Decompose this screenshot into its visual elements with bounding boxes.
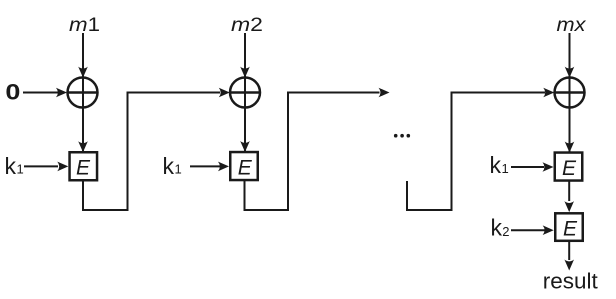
svg-text:2: 2 [502, 224, 509, 239]
svg-text:k: k [163, 153, 175, 179]
svg-text:k: k [491, 215, 503, 241]
svg-text:E: E [76, 157, 91, 180]
svg-text:0: 0 [5, 80, 20, 105]
svg-text:1: 1 [175, 162, 182, 177]
svg-text:result: result [543, 269, 598, 294]
svg-text:k: k [490, 152, 502, 178]
svg-text:E: E [563, 217, 578, 240]
svg-text:m2: m2 [231, 14, 263, 36]
svg-text:E: E [238, 156, 253, 179]
svg-text:k: k [5, 153, 17, 179]
svg-text:m1: m1 [69, 14, 100, 36]
svg-text:mx: mx [557, 14, 587, 36]
svg-text:1: 1 [502, 161, 509, 176]
svg-text:1: 1 [17, 162, 24, 177]
svg-text:E: E [562, 157, 577, 180]
